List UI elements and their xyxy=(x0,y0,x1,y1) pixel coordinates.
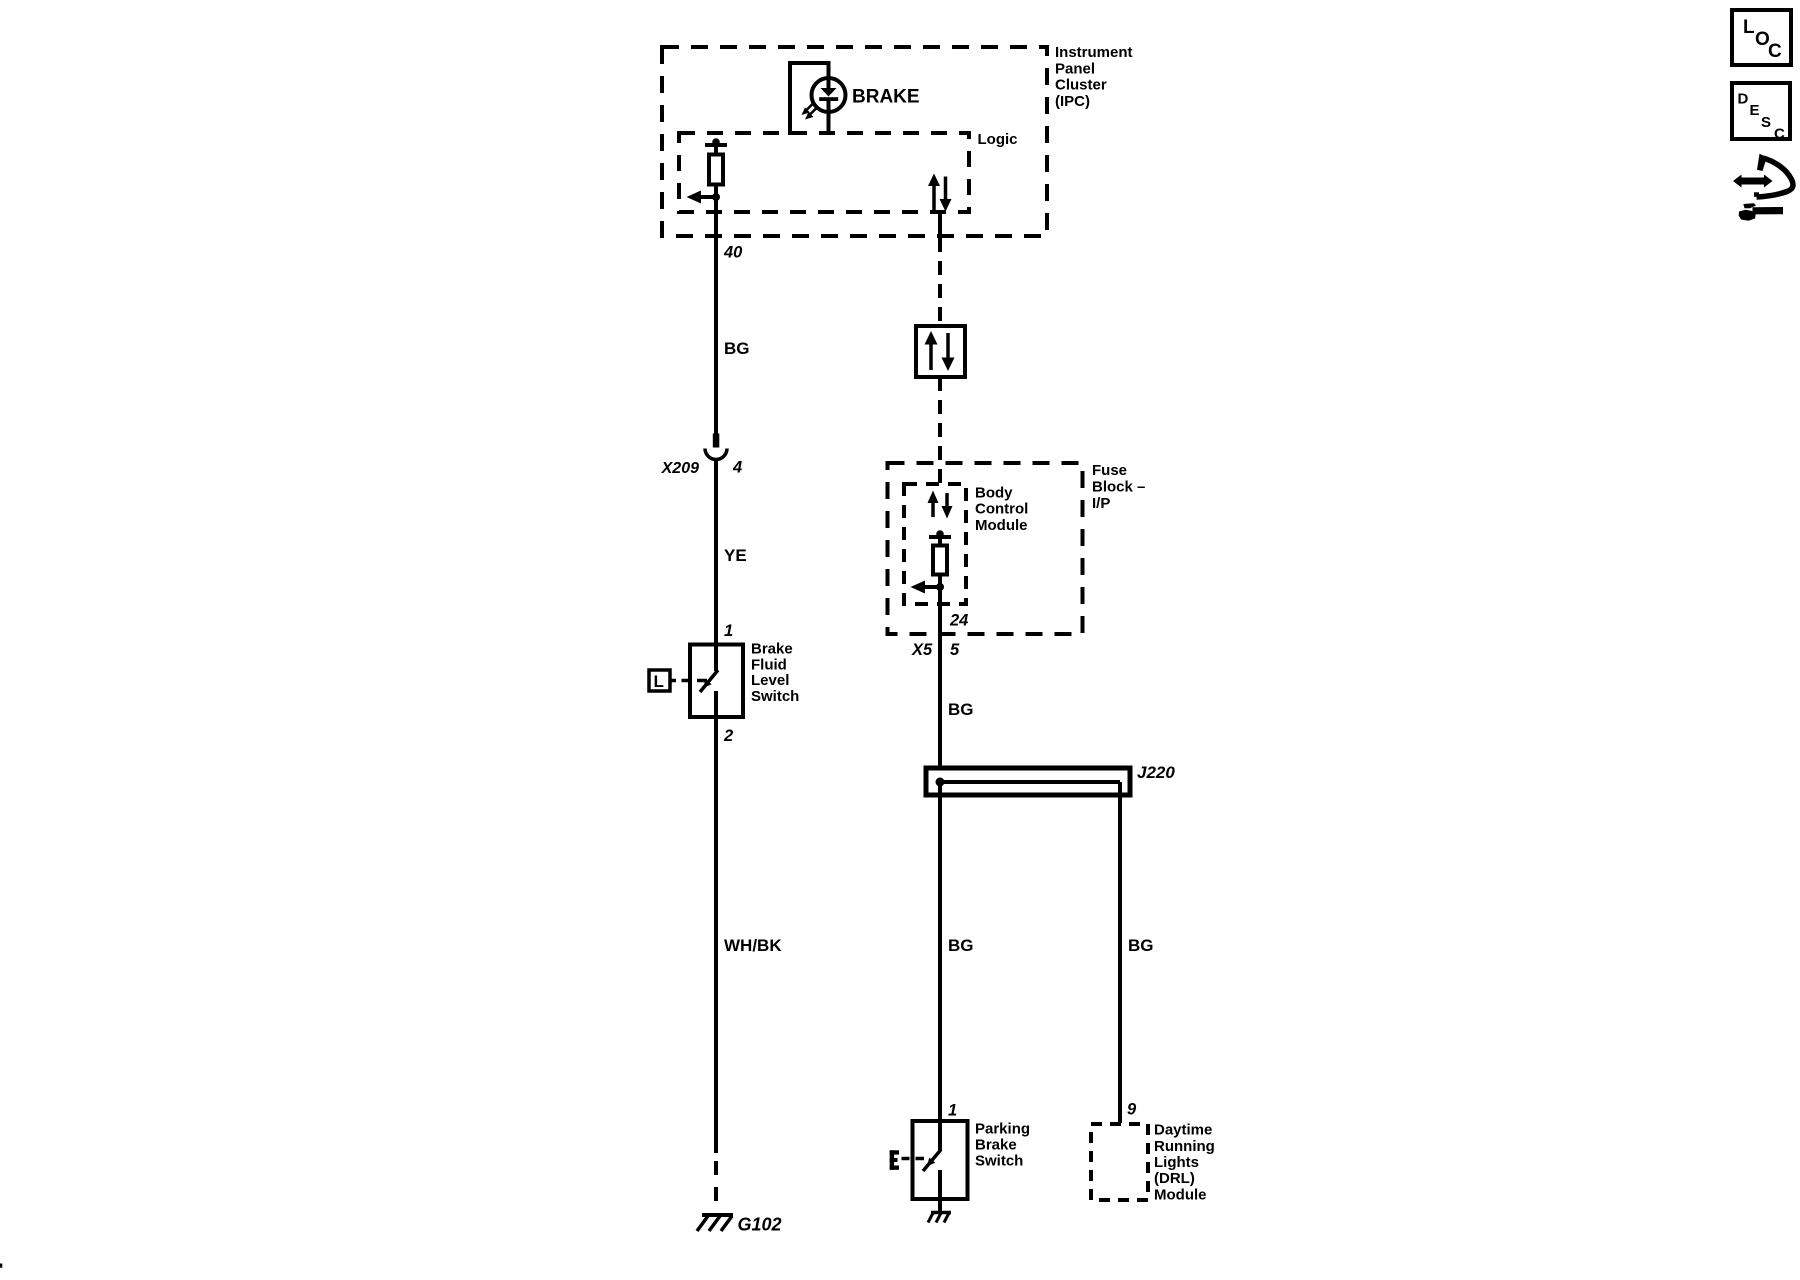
svg-text:BG: BG xyxy=(724,339,750,358)
svg-text:(IPC): (IPC) xyxy=(1055,93,1090,110)
svg-text:BRAKE: BRAKE xyxy=(852,87,920,108)
svg-text:BG: BG xyxy=(948,936,974,955)
svg-text:Panel: Panel xyxy=(1055,60,1095,77)
svg-text:9: 9 xyxy=(1127,1101,1137,1119)
svg-text:5: 5 xyxy=(950,641,960,659)
svg-text:24: 24 xyxy=(949,612,968,630)
svg-text:Control: Control xyxy=(975,501,1028,518)
svg-text:I/P: I/P xyxy=(1092,495,1110,512)
svg-text:4: 4 xyxy=(732,459,742,477)
svg-text:J220: J220 xyxy=(1137,763,1175,782)
svg-text:2: 2 xyxy=(723,727,733,745)
svg-text:YE: YE xyxy=(724,546,747,565)
svg-text:Body: Body xyxy=(975,485,1013,502)
svg-text:L: L xyxy=(654,672,664,691)
svg-text:BG: BG xyxy=(1128,936,1154,955)
svg-text:Module: Module xyxy=(1154,1186,1207,1203)
svg-text:(DRL): (DRL) xyxy=(1154,1170,1195,1187)
svg-text:Module: Module xyxy=(975,517,1028,534)
svg-text:Fuse: Fuse xyxy=(1092,462,1127,479)
svg-text:Daytime: Daytime xyxy=(1154,1122,1212,1139)
svg-text:C: C xyxy=(1774,126,1785,143)
svg-text:L: L xyxy=(1743,17,1755,38)
svg-text:Brake: Brake xyxy=(975,1136,1017,1153)
svg-text:40: 40 xyxy=(723,244,743,262)
svg-text:E: E xyxy=(1750,102,1760,119)
svg-text:Fluid: Fluid xyxy=(751,657,787,674)
svg-text:BG: BG xyxy=(948,700,974,719)
svg-text:Parking: Parking xyxy=(975,1120,1030,1137)
svg-text:WH/BK: WH/BK xyxy=(724,936,782,955)
svg-text:1: 1 xyxy=(948,1102,957,1120)
svg-text:Cluster: Cluster xyxy=(1055,77,1107,94)
svg-text:1: 1 xyxy=(724,622,733,640)
svg-text:Instrument: Instrument xyxy=(1055,44,1133,61)
svg-text:D: D xyxy=(1738,91,1749,108)
svg-text:X5: X5 xyxy=(911,641,933,659)
svg-text:Switch: Switch xyxy=(751,688,799,705)
svg-text:X209: X209 xyxy=(661,460,699,477)
svg-text:G102: G102 xyxy=(738,1215,782,1235)
svg-text:Switch: Switch xyxy=(975,1152,1023,1169)
svg-text:Level: Level xyxy=(751,672,789,689)
svg-text:Running: Running xyxy=(1154,1138,1215,1155)
svg-text:C: C xyxy=(1768,41,1782,62)
svg-text:Block –: Block – xyxy=(1092,479,1145,496)
svg-text:Lights: Lights xyxy=(1154,1154,1199,1171)
svg-text:S: S xyxy=(1761,114,1771,131)
svg-text:Logic: Logic xyxy=(978,131,1018,148)
svg-text:Brake: Brake xyxy=(751,641,793,658)
